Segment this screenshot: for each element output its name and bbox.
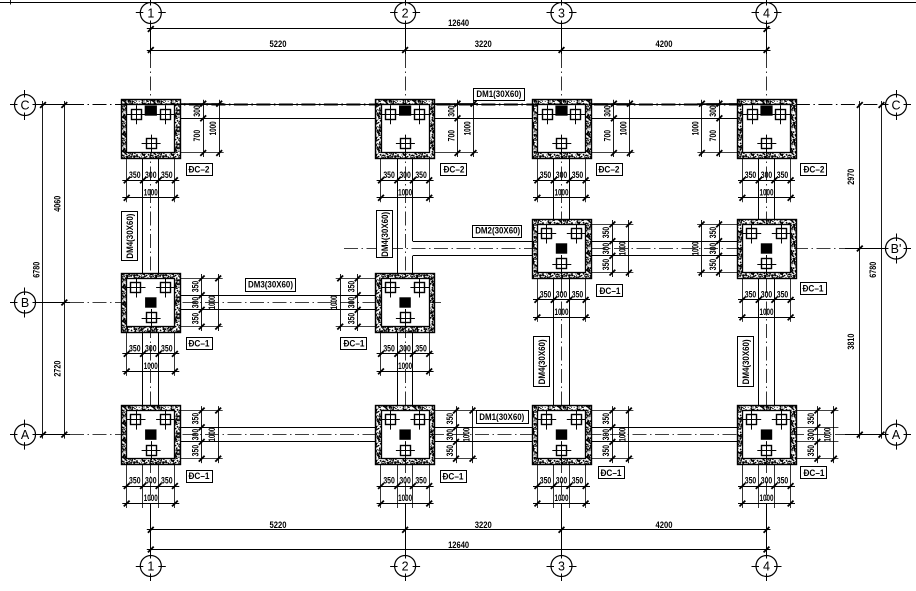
column A3 xyxy=(556,429,567,439)
dimensions 2970/3810 right xyxy=(846,101,863,439)
label DM3(30X60) xyxy=(246,279,296,292)
svg-text:ĐC–2: ĐC–2 xyxy=(189,165,210,175)
column B1 xyxy=(145,297,156,307)
svg-text:350: 350 xyxy=(191,313,201,325)
dim 350/300/350/1000 below A4 xyxy=(738,464,795,508)
svg-text:350: 350 xyxy=(191,281,201,293)
grid line row C xyxy=(36,104,886,106)
svg-text:350: 350 xyxy=(540,476,552,486)
svg-text:350: 350 xyxy=(445,413,455,425)
label DM1(30X60) bottom xyxy=(477,411,529,424)
dim 350/300/350/1000 below A3 xyxy=(533,464,590,508)
svg-text:1000: 1000 xyxy=(619,121,629,135)
svg-text:350: 350 xyxy=(540,170,552,180)
column C4 xyxy=(760,106,772,116)
svg-text:350: 350 xyxy=(572,170,584,180)
dim 350/300/350/1000 below A1 xyxy=(122,464,179,508)
grid line column 4 xyxy=(766,24,768,556)
svg-text:5220: 5220 xyxy=(270,39,287,49)
svg-text:A: A xyxy=(21,428,30,442)
svg-text:350: 350 xyxy=(445,445,455,457)
svg-text:350: 350 xyxy=(708,259,718,271)
dim 350/300/350/1000 right of A2 xyxy=(435,406,478,463)
svg-text:300: 300 xyxy=(556,289,568,299)
pile B1 top-left xyxy=(131,283,141,293)
svg-text:12640: 12640 xyxy=(448,540,469,550)
svg-text:350: 350 xyxy=(806,445,816,457)
label DM4(30X60) col4 xyxy=(738,337,754,387)
dim 350/300/350/1000 right of B'3 xyxy=(591,220,634,277)
dim 350/300/350/1000 below A2 xyxy=(377,464,434,508)
svg-text:DM1(30X60): DM1(30X60) xyxy=(479,412,524,422)
column A4 xyxy=(761,429,772,439)
svg-text:3810: 3810 xyxy=(846,334,856,350)
pile A1 top-right xyxy=(161,415,171,425)
svg-text:6780: 6780 xyxy=(868,262,878,278)
label DC-1 at A1 xyxy=(187,471,213,483)
svg-text:300: 300 xyxy=(708,243,718,255)
svg-text:3220: 3220 xyxy=(475,520,492,530)
svg-text:300: 300 xyxy=(761,289,773,299)
svg-text:350: 350 xyxy=(383,343,395,353)
svg-text:350: 350 xyxy=(347,313,357,325)
column A1 xyxy=(145,429,156,439)
dim 350/300/350/1000 below C1 xyxy=(122,158,179,202)
label DC-2 at C2 xyxy=(441,164,467,176)
column C1 xyxy=(145,106,157,116)
grid line row B xyxy=(36,302,442,304)
footing DC-2 C1 xyxy=(122,100,181,159)
label DM1(30X60) top xyxy=(474,89,525,101)
pile C4 top-left xyxy=(748,110,758,120)
svg-text:ĐC–2: ĐC–2 xyxy=(444,165,465,175)
svg-text:300: 300 xyxy=(601,243,611,255)
svg-text:DM1(30X60): DM1(30X60) xyxy=(476,89,521,99)
pile B2 top-left xyxy=(386,283,396,293)
svg-text:ĐC–1: ĐC–1 xyxy=(443,472,464,482)
svg-text:700: 700 xyxy=(603,130,613,142)
footing DC-1 B1 xyxy=(122,274,181,333)
beam DM4 column 2 xyxy=(398,158,413,405)
dim 350/300/350/1000 below C2 xyxy=(377,158,434,202)
svg-text:300: 300 xyxy=(145,170,157,180)
svg-text:300: 300 xyxy=(761,476,773,486)
grid bubble 3 top xyxy=(547,0,577,28)
svg-text:DM4(30X60): DM4(30X60) xyxy=(380,212,390,257)
label DC-2 at C4 xyxy=(801,164,827,176)
svg-text:1000: 1000 xyxy=(760,493,774,503)
svg-text:3: 3 xyxy=(558,6,565,20)
dim 350/300/350/1000 below B'3 xyxy=(533,278,590,322)
svg-text:350: 350 xyxy=(806,413,816,425)
label DC-1 at B2 xyxy=(341,338,367,350)
svg-text:C: C xyxy=(891,98,900,112)
pile B1 bottom xyxy=(147,313,157,323)
svg-text:ĐC–1: ĐC–1 xyxy=(189,471,210,481)
dim 300/700/1000 right of C2 xyxy=(435,100,479,157)
svg-text:350: 350 xyxy=(601,259,611,271)
svg-text:4200: 4200 xyxy=(656,39,673,49)
svg-text:350: 350 xyxy=(777,170,789,180)
svg-text:DM2(30X60): DM2(30X60) xyxy=(475,226,520,236)
grid line row B-prime xyxy=(344,248,886,250)
dim 350/300/350/1000 left of B2 xyxy=(329,274,376,331)
grid bubble B left xyxy=(10,288,40,318)
pile C3 top-right xyxy=(571,110,581,120)
pile B'4 bottom xyxy=(762,259,772,269)
svg-text:300: 300 xyxy=(761,170,773,180)
column B'3 xyxy=(556,243,567,253)
svg-text:700: 700 xyxy=(192,130,202,142)
svg-text:ĐC–1: ĐC–1 xyxy=(600,286,621,296)
label DC-2 at C3 xyxy=(597,164,623,176)
grid bubble 1 top xyxy=(136,0,166,28)
beam DM1 row A xyxy=(180,428,737,442)
svg-text:300: 300 xyxy=(191,297,201,309)
svg-text:1000: 1000 xyxy=(144,187,158,197)
grid bubble C left xyxy=(10,90,40,120)
svg-text:1000: 1000 xyxy=(823,428,833,442)
dim 350/300/350/1000 right of A3 xyxy=(591,406,634,463)
svg-text:2: 2 xyxy=(402,559,409,573)
dim 350/300/350/1000 below C3 xyxy=(533,158,590,202)
dim 300/700/1000 right of C3 xyxy=(591,100,635,157)
footing DC-2 C4 xyxy=(738,100,797,159)
dim 350/300/350/1000 below B1 xyxy=(122,332,179,376)
dimension 12640 top xyxy=(147,18,771,32)
dim 350/300/350/1000 right of A4 xyxy=(796,406,839,463)
footing DC-1 A2 xyxy=(376,406,435,465)
svg-text:300: 300 xyxy=(446,105,456,117)
svg-text:350: 350 xyxy=(415,476,427,486)
pile A4 bottom xyxy=(762,446,772,456)
svg-text:ĐC–2: ĐC–2 xyxy=(804,165,825,175)
svg-text:1000: 1000 xyxy=(144,361,158,371)
svg-text:1000: 1000 xyxy=(208,121,218,135)
svg-text:5220: 5220 xyxy=(270,520,287,530)
svg-text:1000: 1000 xyxy=(555,307,569,317)
dim 350/300/350/1000 below B2 xyxy=(377,332,434,376)
label DC-1 at A3 xyxy=(599,467,625,479)
grid line column 3 xyxy=(561,24,563,556)
svg-text:ĐC–1: ĐC–1 xyxy=(804,468,825,478)
dimension 12640 bottom xyxy=(147,540,771,552)
svg-text:4200: 4200 xyxy=(656,520,673,530)
svg-text:350: 350 xyxy=(129,343,141,353)
svg-text:300: 300 xyxy=(399,343,411,353)
label DM4(30X60) col3 xyxy=(534,337,550,387)
pile B'3 top-left xyxy=(542,229,552,239)
dimension 6780 right xyxy=(868,101,884,439)
svg-text:1000: 1000 xyxy=(207,428,217,442)
svg-text:350: 350 xyxy=(572,289,584,299)
label DM4(30X60) col2 xyxy=(377,211,393,258)
svg-text:ĐC–1: ĐC–1 xyxy=(344,339,365,349)
svg-text:300: 300 xyxy=(145,343,157,353)
grid bubble 2 top xyxy=(390,0,420,28)
column C2 xyxy=(399,106,411,116)
dim 350/300/350/1000 right of A1 xyxy=(180,406,223,463)
pile A2 top-right xyxy=(415,415,425,425)
grid bubble A left xyxy=(10,420,40,450)
grid bubble C right xyxy=(881,90,911,120)
svg-text:A: A xyxy=(892,428,901,442)
label DC-1 at B'4 xyxy=(801,283,827,295)
svg-text:2: 2 xyxy=(402,6,409,20)
svg-text:300: 300 xyxy=(347,297,357,309)
svg-text:350: 350 xyxy=(129,476,141,486)
svg-text:1000: 1000 xyxy=(461,428,471,442)
pile B'4 top-left xyxy=(747,229,757,239)
svg-text:1000: 1000 xyxy=(462,121,472,135)
pile C3 bottom xyxy=(557,139,567,149)
column B2 xyxy=(399,297,410,307)
pile C3 top-left xyxy=(543,110,553,120)
pile A3 top-left xyxy=(542,415,552,425)
column C3 xyxy=(555,106,567,116)
beam DM3 row B xyxy=(180,296,376,310)
svg-text:350: 350 xyxy=(601,413,611,425)
pile A2 bottom xyxy=(401,446,411,456)
grid line column 1 xyxy=(150,24,152,556)
pile A3 bottom xyxy=(557,446,567,456)
svg-text:1000: 1000 xyxy=(555,187,569,197)
svg-text:4: 4 xyxy=(763,559,770,573)
svg-text:DM4(30X60): DM4(30X60) xyxy=(537,339,547,384)
grid line column 2 xyxy=(405,24,407,556)
pile B'3 top-right xyxy=(572,229,582,239)
dimension 6780 left xyxy=(32,101,46,439)
svg-text:1000: 1000 xyxy=(618,242,628,256)
svg-text:300: 300 xyxy=(806,429,816,441)
svg-text:1000: 1000 xyxy=(618,428,628,442)
svg-text:ĐC–1: ĐC–1 xyxy=(601,468,622,478)
svg-text:300: 300 xyxy=(603,105,613,117)
pile A4 top-left xyxy=(747,415,757,425)
page border top xyxy=(0,0,916,5)
footing DC-1 A4 xyxy=(738,406,797,465)
pile A4 top-right xyxy=(777,415,787,425)
label DC-1 at B1 xyxy=(187,338,213,350)
svg-text:350: 350 xyxy=(745,170,757,180)
label DC-1 at A4 xyxy=(801,467,827,479)
grid bubble 4 top xyxy=(752,0,782,28)
pile C1 top-left xyxy=(132,110,142,120)
svg-text:1000: 1000 xyxy=(690,242,700,256)
svg-text:300: 300 xyxy=(192,105,202,117)
svg-text:1000: 1000 xyxy=(760,307,774,317)
svg-text:C: C xyxy=(20,98,29,112)
svg-text:ĐC–1: ĐC–1 xyxy=(189,339,210,349)
pile C4 top-right xyxy=(776,110,786,120)
pile C1 bottom xyxy=(147,139,157,149)
dim 350/300/350/1000 below B'4 xyxy=(738,278,795,322)
footing DC-2 C2 xyxy=(376,100,435,159)
svg-text:6780: 6780 xyxy=(32,262,42,278)
svg-text:350: 350 xyxy=(745,289,757,299)
footing DC-1 B2 xyxy=(376,274,435,333)
svg-text:1: 1 xyxy=(147,559,154,573)
svg-text:2720: 2720 xyxy=(53,361,63,377)
svg-text:350: 350 xyxy=(777,476,789,486)
dimensions 4060/2720 left xyxy=(53,101,68,439)
svg-text:350: 350 xyxy=(415,170,427,180)
svg-text:350: 350 xyxy=(708,227,718,239)
pile B'3 bottom xyxy=(557,259,567,269)
grid bubble 3 bottom xyxy=(547,551,577,581)
pile C1 top-right xyxy=(161,110,171,120)
svg-text:1000: 1000 xyxy=(691,121,701,135)
beam DM4 column 1 xyxy=(143,158,159,405)
pile A1 bottom xyxy=(147,446,157,456)
footing DC-1 B'3 xyxy=(533,220,592,279)
beam DM4 column 3 xyxy=(554,158,570,405)
label DM4(30X60) col1 xyxy=(122,212,138,261)
dim 350/300/350/1000 right of B1 xyxy=(180,274,223,331)
svg-text:350: 350 xyxy=(191,413,201,425)
svg-text:DM4(30X60): DM4(30X60) xyxy=(125,214,135,259)
label DC-1 at B'3 xyxy=(597,285,623,297)
svg-text:1: 1 xyxy=(147,6,154,20)
dim 300/700/1000 left of C4 xyxy=(691,100,737,157)
svg-text:3220: 3220 xyxy=(475,39,492,49)
pile A2 top-left xyxy=(386,415,396,425)
svg-text:350: 350 xyxy=(415,343,427,353)
svg-text:350: 350 xyxy=(347,281,357,293)
svg-text:350: 350 xyxy=(540,289,552,299)
svg-text:300: 300 xyxy=(556,170,568,180)
svg-text:350: 350 xyxy=(777,289,789,299)
svg-text:1000: 1000 xyxy=(207,296,217,310)
svg-text:300: 300 xyxy=(145,476,157,486)
svg-text:350: 350 xyxy=(161,476,173,486)
svg-text:350: 350 xyxy=(745,476,757,486)
svg-text:DM4(30X60): DM4(30X60) xyxy=(741,339,751,384)
svg-text:300: 300 xyxy=(191,429,201,441)
svg-text:350: 350 xyxy=(161,170,173,180)
svg-text:300: 300 xyxy=(556,476,568,486)
footing DC-1 A1 xyxy=(122,406,181,465)
label DM2(30X60) xyxy=(473,226,522,238)
label DC-1 at A2 xyxy=(441,471,467,483)
grid bubble 4 bottom xyxy=(752,551,782,581)
footing DC-1 B'4 xyxy=(738,220,797,279)
svg-text:1000: 1000 xyxy=(398,493,412,503)
svg-text:1000: 1000 xyxy=(329,296,339,310)
svg-text:1000: 1000 xyxy=(760,187,774,197)
beam DM1 row C xyxy=(180,105,737,119)
svg-text:ĐC–1: ĐC–1 xyxy=(803,284,824,294)
svg-text:300: 300 xyxy=(399,170,411,180)
dim 350/300/350/1000 below C4 xyxy=(738,158,795,202)
beam DM2 row B-prime xyxy=(413,242,737,256)
svg-text:700: 700 xyxy=(446,130,456,142)
pile C2 bottom xyxy=(401,139,411,149)
svg-text:350: 350 xyxy=(129,170,141,180)
svg-text:3: 3 xyxy=(558,559,565,573)
footing DC-1 A3 xyxy=(533,406,592,465)
pile B'4 top-right xyxy=(777,229,787,239)
svg-text:300: 300 xyxy=(399,476,411,486)
svg-text:350: 350 xyxy=(601,227,611,239)
svg-text:350: 350 xyxy=(383,476,395,486)
svg-text:1000: 1000 xyxy=(398,187,412,197)
svg-text:2970: 2970 xyxy=(846,169,856,185)
pile B1 top-right xyxy=(161,283,171,293)
svg-text:1000: 1000 xyxy=(144,493,158,503)
svg-text:B: B xyxy=(21,296,29,310)
svg-text:300: 300 xyxy=(445,429,455,441)
svg-text:B': B' xyxy=(891,242,902,256)
label DC-2 at C1 xyxy=(187,164,213,176)
svg-text:DM3(30X60): DM3(30X60) xyxy=(248,280,293,290)
svg-text:350: 350 xyxy=(161,343,173,353)
svg-text:12640: 12640 xyxy=(448,18,469,28)
dim 350/300/350/1000 left of B'4 xyxy=(690,220,737,277)
svg-text:350: 350 xyxy=(572,476,584,486)
dimensions 5220/3220/4200 top xyxy=(147,39,771,53)
svg-text:300: 300 xyxy=(601,429,611,441)
pile C2 top-left xyxy=(386,110,396,120)
grid bubble B' right xyxy=(881,234,911,264)
svg-text:350: 350 xyxy=(191,445,201,457)
pile A1 top-left xyxy=(131,415,141,425)
svg-text:4060: 4060 xyxy=(53,196,63,212)
pile C4 bottom xyxy=(762,139,772,149)
column B'4 xyxy=(761,243,772,253)
dim 300/700/1000 right of C1 xyxy=(180,100,224,157)
svg-text:1000: 1000 xyxy=(398,361,412,371)
grid bubble 1 bottom xyxy=(136,551,166,581)
grid bubble 2 bottom xyxy=(390,551,420,581)
column A2 xyxy=(399,429,410,439)
svg-text:350: 350 xyxy=(601,445,611,457)
grid line row A xyxy=(36,434,886,436)
svg-text:4: 4 xyxy=(763,6,770,20)
pile A3 top-right xyxy=(572,415,582,425)
svg-text:300: 300 xyxy=(708,105,718,117)
svg-text:1000: 1000 xyxy=(555,493,569,503)
dimensions 5220/3220/4200 bottom xyxy=(147,520,771,533)
footing DC-2 C3 xyxy=(533,100,592,159)
pile B2 bottom xyxy=(401,313,411,323)
beam DM4 column 4 xyxy=(759,158,775,405)
pile C2 top-right xyxy=(415,110,425,120)
pile B2 top-right xyxy=(415,283,425,293)
grid bubble A right xyxy=(881,420,911,450)
svg-text:ĐC–2: ĐC–2 xyxy=(599,165,620,175)
svg-text:700: 700 xyxy=(708,130,718,142)
svg-text:350: 350 xyxy=(383,170,395,180)
